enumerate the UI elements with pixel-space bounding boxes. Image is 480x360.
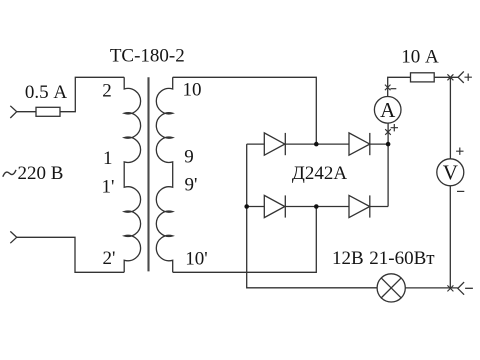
svg-text:V: V (443, 160, 458, 184)
svg-text:2': 2' (103, 248, 116, 269)
svg-text:ТС-180-2: ТС-180-2 (110, 46, 185, 67)
svg-text:0.5 А: 0.5 А (25, 82, 68, 103)
svg-text:1': 1' (102, 177, 115, 198)
svg-text:2: 2 (102, 81, 112, 102)
svg-text:Д242А: Д242А (292, 163, 347, 184)
svg-text:12В: 12В (332, 248, 364, 269)
svg-text:220 В: 220 В (18, 163, 64, 184)
svg-text:10: 10 (183, 80, 202, 101)
svg-text:21-60Вт: 21-60Вт (369, 248, 435, 269)
svg-text:10': 10' (185, 249, 207, 270)
svg-text:А: А (380, 98, 396, 122)
svg-text:10 А: 10 А (401, 47, 439, 68)
svg-text:9: 9 (184, 147, 194, 168)
svg-text:1: 1 (103, 148, 113, 169)
svg-text:9': 9' (185, 175, 198, 196)
